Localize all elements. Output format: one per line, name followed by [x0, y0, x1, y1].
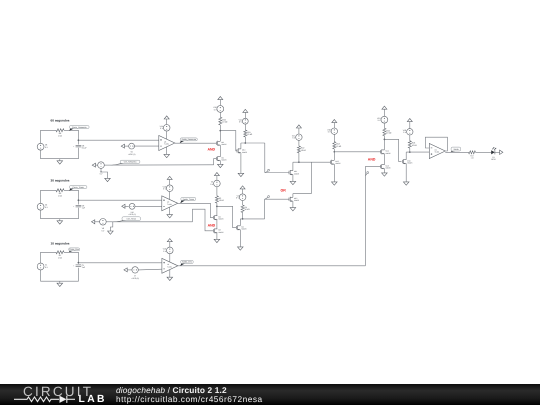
- wire orinv src: [333, 164, 335, 182]
- ground U2: [167, 215, 173, 218]
- svg-text:60 segundos: 60 segundos: [51, 119, 70, 123]
- svg-text:5 V: 5 V: [403, 131, 407, 134]
- vdd arrow V16: [407, 119, 412, 129]
- wire RC30 to opamp: [78, 199, 161, 201]
- wire and60 drain: [219, 131, 221, 142]
- svg-text:1uF: 1uF: [82, 207, 86, 210]
- ctrl source V5: [98, 162, 105, 176]
- op-amp U8: [159, 136, 175, 151]
- wire led-out: [495, 151, 500, 153]
- source V4: [236, 194, 246, 201]
- source V3: [210, 180, 220, 187]
- svg-text:+VDD (1): +VDD (1): [128, 153, 136, 156]
- flag Saida_Dez: [180, 260, 193, 266]
- label AND 60: [208, 147, 216, 151]
- svg-text:NMOS: NMOS: [386, 152, 392, 155]
- wire or2 src: [292, 201, 294, 208]
- ground andf: [382, 173, 388, 176]
- resistor R9: [56, 189, 64, 198]
- wire U2 gnd stem: [169, 207, 171, 214]
- label AND 30: [208, 223, 216, 227]
- logo CIRCUIT: [23, 384, 93, 399]
- svg-text:5 V: 5 V: [328, 131, 332, 134]
- wire R15-node: [384, 136, 386, 141]
- svg-text:+: +: [73, 205, 74, 208]
- svg-text:NMOS: NMOS: [242, 151, 248, 154]
- wire Vor-Ror: [298, 140, 300, 146]
- transistor M13: [330, 160, 341, 165]
- svg-text:5 V: 5 V: [45, 266, 49, 269]
- wire andf mid: [383, 154, 385, 165]
- wire andf drain: [383, 139, 385, 150]
- svg-text:Ctrl_Trinta: Ctrl_Trinta: [127, 217, 137, 220]
- footer bar: [0, 384, 540, 405]
- svg-text:Porta_Trinta: Porta_Trinta: [73, 186, 85, 189]
- svg-text:TL081: TL081: [167, 266, 172, 269]
- supply source V13: [163, 247, 173, 254]
- wire U8 out: [175, 142, 217, 144]
- transistor M12: [289, 197, 300, 202]
- title 10 segundos: [51, 242, 70, 246]
- net flag inv60: [265, 169, 269, 173]
- wire V10-R10: [219, 112, 221, 117]
- vdd arrow Vor: [296, 125, 301, 134]
- wire outinv drain: [405, 152, 407, 160]
- svg-text:5 V: 5 V: [100, 173, 104, 176]
- wire U9 out: [445, 151, 468, 153]
- logo LAB: [79, 394, 107, 405]
- wire orinv drain: [333, 152, 335, 161]
- wire inv30 drain: [239, 219, 241, 226]
- svg-text:TL081: TL081: [435, 151, 440, 154]
- ref source V9: [128, 143, 136, 156]
- svg-text:Porta_Dez: Porta_Dez: [69, 248, 78, 251]
- voltage source V2: [37, 203, 48, 210]
- transistor M15: [381, 164, 392, 169]
- voltage source V8: [37, 143, 48, 150]
- ref source V10b: [128, 203, 136, 216]
- wire ref60 to opamp: [135, 145, 159, 147]
- ctrl flag arrow 30: [92, 220, 100, 224]
- resistor R11: [244, 130, 253, 137]
- wire andf node to out gate: [384, 139, 401, 161]
- node tap60: [78, 139, 80, 141]
- svg-text:NMOS: NMOS: [294, 173, 300, 176]
- ground RC10: [57, 283, 63, 286]
- wire RC60 loop: [41, 130, 79, 161]
- ground and30: [214, 239, 220, 242]
- resistor R8: [56, 129, 64, 138]
- wire RC10 to opamp: [78, 262, 161, 264]
- wire R11-node: [244, 137, 246, 144]
- flag Saida final: [450, 147, 460, 152]
- ground ctrl60: [105, 178, 111, 181]
- resistor R4: [241, 205, 250, 213]
- source V10: [213, 106, 223, 113]
- svg-text:+VDD (3): +VDD (3): [131, 277, 139, 280]
- ground and60: [218, 164, 224, 167]
- transistor M14: [381, 149, 392, 154]
- transistor M3: [213, 228, 224, 233]
- node tap30: [78, 199, 80, 201]
- capacitor C1: [73, 264, 86, 269]
- wire inv60 src: [240, 153, 242, 174]
- wire U8 gnd stem: [166, 147, 168, 155]
- op-amp U1: [162, 258, 178, 273]
- wire inv60 drain: [240, 143, 242, 149]
- wire V13b-R13: [333, 134, 335, 141]
- capacitor C9: [73, 204, 86, 209]
- label OR: [280, 189, 286, 193]
- ground ctrl30: [108, 231, 114, 234]
- flag Ctrl_Sessenta: [111, 160, 140, 165]
- wire R13-node: [333, 149, 335, 153]
- footer title: [116, 385, 227, 395]
- wire ctrl60 gnd: [101, 168, 108, 178]
- led D1: [491, 147, 496, 161]
- svg-text:NMOS: NMOS: [218, 218, 224, 221]
- svg-text:30 segundos: 30 segundos: [51, 179, 70, 183]
- wire V15-R15: [383, 123, 385, 128]
- svg-text:NMOS: NMOS: [294, 199, 300, 202]
- svg-text:10 kΩ: 10 kΩ: [222, 121, 228, 124]
- source Vor: [292, 134, 302, 140]
- transistor M8: [216, 141, 227, 146]
- ground outinv: [403, 182, 409, 185]
- wire outinv node: [406, 151, 429, 153]
- vdd arrow V11: [243, 109, 248, 118]
- ground orinv: [332, 182, 338, 185]
- transistor M16: [402, 159, 413, 164]
- svg-text:5 V: 5 V: [45, 206, 49, 209]
- vdd arrow V15: [382, 106, 387, 116]
- svg-text:+: +: [73, 265, 74, 268]
- wire outinv src: [405, 164, 407, 182]
- flag output arrow: [500, 150, 503, 154]
- svg-text:10 kΩ: 10 kΩ: [245, 208, 251, 211]
- wire andf src: [383, 169, 385, 173]
- transistor M11: [289, 170, 300, 175]
- wire R4-node: [242, 213, 244, 220]
- ctrl source V6: [100, 219, 107, 233]
- svg-text:+VDD (2): +VDD (2): [128, 213, 136, 216]
- title 30 segundos: [51, 179, 70, 183]
- capacitor C8: [73, 144, 87, 149]
- ground inv60: [238, 173, 244, 176]
- resistor R13: [333, 142, 342, 149]
- net flag inv30: [265, 196, 269, 199]
- svg-text:NMOS: NMOS: [221, 159, 227, 162]
- resistor R17: [469, 151, 476, 160]
- svg-text:OR: OR: [280, 189, 286, 193]
- wire R17-led: [476, 151, 492, 153]
- wire U1 out long: [178, 167, 381, 266]
- flag Saida_Sessenta: [180, 138, 198, 143]
- ground U8: [164, 154, 170, 157]
- source V15: [377, 116, 388, 123]
- ground or1: [290, 181, 296, 184]
- source V13b: [327, 128, 337, 134]
- svg-text:Saida_Sessenta: Saida_Sessenta: [181, 138, 196, 141]
- vdd arrow V3: [214, 173, 219, 181]
- wire U2 Vplus stem: [169, 192, 171, 200]
- svg-text:Porta_Sessenta: Porta_Sessenta: [72, 126, 87, 129]
- wire or1 src: [292, 174, 294, 181]
- svg-text:Ctrl_Sessenta: Ctrl_Sessenta: [124, 161, 137, 164]
- svg-text:NMOS: NMOS: [335, 162, 341, 165]
- wire ctrl30: [106, 209, 213, 231]
- svg-text:+: +: [73, 145, 74, 148]
- wire R16-node: [409, 148, 411, 153]
- vdd arrow V10: [218, 97, 223, 106]
- svg-text:AND: AND: [208, 147, 216, 151]
- ref source V7: [131, 267, 139, 280]
- svg-text:1 kΩ: 1 kΩ: [58, 257, 63, 260]
- wire V16-R16: [409, 135, 411, 141]
- wire or2 drain: [293, 162, 311, 197]
- svg-text:Saida: Saida: [453, 148, 459, 151]
- svg-text:1 kΩ: 1 kΩ: [58, 195, 63, 198]
- svg-text:10 segundos: 10 segundos: [51, 242, 70, 246]
- wire and30 node to inverter gate: [217, 206, 237, 227]
- svg-text:0.1uF: 0.1uF: [82, 147, 88, 150]
- svg-text:NMOS: NMOS: [407, 162, 413, 165]
- op-amp U9: [429, 144, 445, 159]
- wire and30 drain: [216, 206, 218, 215]
- logo resistor-diode line: [0, 384, 540, 405]
- label AND final: [368, 157, 376, 161]
- title 60 segundos: [51, 119, 70, 123]
- ref flag 30: [122, 204, 129, 208]
- source V11: [239, 118, 249, 124]
- wire U8 Vplus stem: [166, 131, 168, 139]
- svg-text:1 kΩ: 1 kΩ: [58, 135, 63, 138]
- supply source V14: [160, 125, 170, 132]
- svg-text:10 kΩ: 10 kΩ: [336, 145, 342, 148]
- wire or rail: [293, 161, 331, 163]
- svg-text:10 kΩ: 10 kΩ: [247, 133, 253, 136]
- source V16: [403, 129, 413, 135]
- svg-text:TL081: TL081: [167, 203, 172, 206]
- ground RC60: [57, 161, 63, 164]
- flag Saida_Trinta: [180, 198, 196, 204]
- transistor M4: [236, 225, 247, 230]
- ref flag 10: [124, 268, 132, 272]
- ground or2: [290, 208, 296, 211]
- flag Ctrl_Trinta: [113, 217, 141, 222]
- wire Ror-node: [298, 153, 300, 163]
- transistor M9: [216, 156, 227, 161]
- svg-text:10 kΩ: 10 kΩ: [386, 132, 392, 135]
- svg-text:5 V: 5 V: [101, 229, 105, 232]
- resistor R15: [383, 128, 392, 135]
- wire and60 mid: [219, 145, 221, 157]
- voltage source V1: [37, 263, 48, 270]
- svg-text:NMOS: NMOS: [241, 228, 247, 231]
- flag Porta_Dez: [69, 248, 80, 252]
- wire and60 node to inverter gate: [220, 131, 237, 151]
- resistor Ror: [297, 146, 306, 153]
- wire ctrl30 gnd: [110, 222, 112, 231]
- wire or1 drain: [292, 162, 294, 170]
- resistor R3: [215, 196, 224, 203]
- svg-text:NMOS: NMOS: [221, 143, 227, 146]
- wire V11-R11: [244, 124, 246, 130]
- wire R10-node: [219, 125, 221, 131]
- svg-text:BF50: BF50: [491, 158, 495, 161]
- node tap10: [78, 262, 80, 264]
- svg-text:NMOS: NMOS: [386, 167, 392, 170]
- svg-text:10 kΩ: 10 kΩ: [301, 149, 307, 152]
- wire ctrl60: [104, 159, 216, 166]
- wire and30 mid: [216, 220, 218, 229]
- wire U9 feedback: [425, 137, 447, 151]
- svg-text:5 V: 5 V: [239, 121, 243, 124]
- svg-text:NMOS: NMOS: [218, 231, 224, 234]
- wire and30 src: [216, 233, 218, 240]
- svg-text:5 V: 5 V: [45, 146, 49, 149]
- net flag dez: [366, 172, 369, 176]
- svg-text:1uF: 1uF: [82, 266, 86, 269]
- ctrl flag arrow 60: [92, 163, 98, 167]
- wire V4-R4: [242, 201, 244, 206]
- svg-text:TL081: TL081: [164, 143, 169, 146]
- wire inv30 src: [239, 230, 241, 247]
- transistor M10: [237, 148, 248, 153]
- wire U1 Vplus stem: [169, 254, 171, 262]
- ground U1: [167, 277, 173, 280]
- svg-text:10 kΩ: 10 kΩ: [412, 144, 418, 147]
- wire ref10 to opamp: [138, 268, 162, 271]
- svg-text:AND: AND: [208, 223, 216, 227]
- wire RC30 loop: [41, 190, 79, 221]
- flag Porta_Trinta: [69, 186, 87, 191]
- vdd arrow U2: [167, 176, 172, 185]
- svg-text:AND: AND: [368, 157, 376, 161]
- ground RC30: [57, 221, 63, 224]
- vdd arrow U1: [167, 239, 172, 248]
- supply source V12: [163, 185, 173, 192]
- vdd arrow V4: [240, 186, 245, 194]
- wire U2 out: [178, 203, 214, 217]
- footer url: [116, 394, 263, 404]
- transistor M2: [213, 215, 224, 220]
- wire RC60 to opamp: [78, 139, 158, 141]
- wire and60 src: [219, 161, 221, 165]
- ref flag 60: [121, 144, 128, 148]
- resistor R16: [408, 141, 417, 148]
- wire RC10 loop: [41, 252, 79, 283]
- vdd arrow U8: [164, 116, 169, 125]
- svg-text:5 V: 5 V: [292, 137, 296, 140]
- ground inv30: [238, 247, 244, 250]
- svg-text:10 kΩ: 10 kΩ: [219, 199, 225, 202]
- svg-text:5 V: 5 V: [378, 119, 382, 122]
- wire R3-node: [216, 203, 218, 207]
- svg-text:Saida_Trinta: Saida_Trinta: [183, 198, 195, 201]
- wire orinv out rail: [334, 151, 380, 153]
- op-amp U2: [162, 196, 178, 211]
- wire inv60 out: [241, 143, 289, 173]
- wire U1 gnd stem: [169, 270, 171, 277]
- wire ref30 to opamp: [135, 205, 162, 207]
- resistor R1: [56, 251, 64, 260]
- vdd arrow V13b: [332, 120, 337, 129]
- resistor R10: [219, 117, 228, 125]
- svg-text:Saida_Dez: Saida_Dez: [182, 261, 192, 264]
- wire V3-R3: [216, 187, 218, 196]
- flag Porta_Sessenta: [69, 126, 89, 131]
- wire inv30 out: [240, 199, 289, 219]
